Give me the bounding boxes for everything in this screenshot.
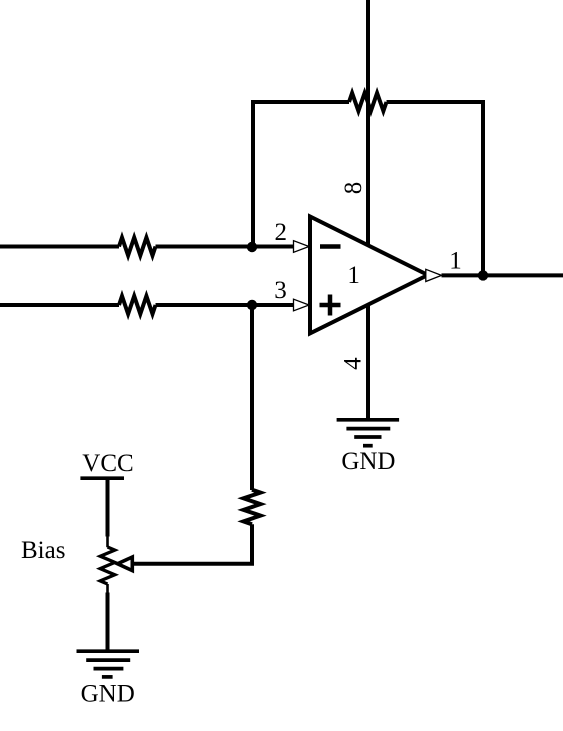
potentiometer wiper arrow [118,557,133,571]
svg-text:Bias: Bias [21,537,65,564]
wire: feedback top-left segment and drop to inverting node [253,102,349,247]
node: output junction [478,270,488,280]
svg-text:1: 1 [449,248,462,275]
wire: potentiometer bottom lead [106,584,109,593]
wire: potentiometer top lead [106,537,109,548]
wire: input 3 to op-amp pin 3 [156,303,294,307]
resistor (input 2) [119,238,156,256]
wire: node 3 down to bias resistor [250,305,254,490]
svg-text:8: 8 [340,182,367,195]
op-amp U1 body [310,217,428,334]
pin arrow into pin 3 [294,299,310,311]
svg-text:2: 2 [275,219,288,246]
wire: potentiometer to ground [106,593,110,651]
ground symbol (op-amp GND) [337,420,400,446]
svg-text:GND: GND [81,680,135,707]
ground symbol (bias GND) [77,651,140,677]
svg-text:4: 4 [339,357,366,370]
potentiometer Bias (zigzag body) [100,547,115,584]
wire: feedback top-right segment and drop to output node [387,102,484,275]
svg-text:3: 3 [274,277,287,304]
node: inverting input junction [247,242,257,252]
power bar VCC [80,476,124,480]
resistor (feedback) [349,93,387,111]
wire: pin 4 down to ground [366,305,370,419]
op-amp inverting (minus) mark [320,244,341,249]
op-amp non-inverting (plus) mark [320,295,341,316]
resistor (bias series) [244,490,261,525]
svg-text:VCC: VCC [82,450,133,477]
wire: bias resistor down and left to wiper [133,524,253,564]
wire: input 2 left segment [0,245,119,249]
svg-text:GND: GND [341,448,395,475]
wire: V+ line down to op-amp pin 8 [366,0,370,246]
svg-text:1: 1 [347,262,360,289]
node: non-inverting input junction [247,300,257,310]
pin arrow into pin 2 [294,241,310,253]
wire: VCC bar down to potentiometer [106,478,110,536]
pin arrow out of pin 1 [426,269,442,281]
wire: input 2 to op-amp pin 2 [156,245,294,249]
wire: input 3 left segment [0,303,119,307]
wire: output [442,273,563,277]
resistor (input 3) [119,296,156,314]
